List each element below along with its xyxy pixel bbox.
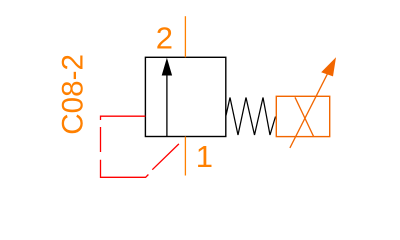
svg-text:C08-2: C08-2 bbox=[57, 54, 90, 135]
svg-text:2: 2 bbox=[156, 20, 173, 55]
svg-text:1: 1 bbox=[196, 139, 213, 174]
